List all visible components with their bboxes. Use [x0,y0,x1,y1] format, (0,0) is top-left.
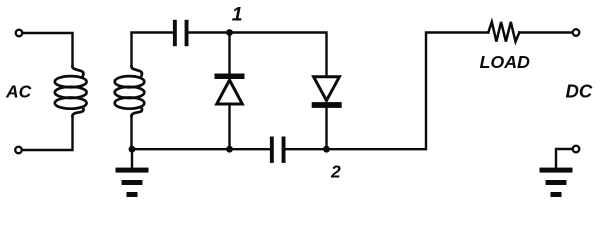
diode D2 (pointing down, cathode bar at bottom) [312,77,342,108]
ground symbol (DC return) [540,168,573,197]
wire: C2 to node 2 [286,148,327,150]
node 1 junction dot [226,29,233,36]
svg-text:DC: DC [566,81,593,102]
junction dot (D1 anode on bottom rail) [226,146,233,153]
wire: primary bottom to AC bottom terminal [23,116,73,150]
diode D1 (cathode bar up) [215,74,245,105]
junction dot on bottom rail (transformer/ground) [129,146,136,153]
wire: node 1 to top-right corner into D2 [230,33,327,77]
capacitor C1 (series input cap) [173,20,189,46]
ground symbol (transformer secondary) [116,149,149,197]
inductor L2 secondary winding [115,67,145,117]
wire: resistor to DC+ terminal [519,31,572,33]
wire: AC top terminal to primary top [23,33,73,67]
wire: C1 to node 1 [189,31,230,33]
terminal: DC output [573,29,580,36]
node 2 junction dot [323,146,330,153]
inductor L1 primary winding [55,67,87,117]
svg-text:2: 2 [330,161,341,181]
wire: secondary bottom to ground rail [130,116,132,149]
wire: node 2 right and up to load [327,33,489,150]
capacitor C2 (output cap) [270,137,286,163]
wire: secondary top to capacitor C1 [132,33,173,68]
wire: bottom rail from ground junction to capacitor C2 [132,148,270,150]
svg-text:LOAD: LOAD [480,52,531,72]
svg-text:AC: AC [5,82,32,102]
wire: D2 cathode down to node 2 [325,108,327,149]
terminal: AC input bottom [15,147,22,154]
terminal: DC return [573,146,580,153]
terminal: AC input top [16,30,23,37]
wire: D1 anode down to bottom rail [228,106,230,150]
wire: DC return terminal to ground [556,149,572,168]
wire: node 1 down to diode D1 cathode [228,33,230,74]
svg-text:1: 1 [232,3,243,25]
resistor LOAD [488,22,519,42]
